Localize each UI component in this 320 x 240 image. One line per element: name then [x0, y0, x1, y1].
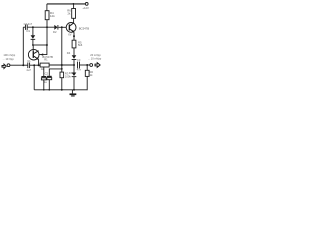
wire R2 top lead — [86, 65, 88, 70]
resistor R2 (output load) — [85, 70, 89, 76]
wire R5 to D4 — [73, 48, 75, 56]
node feedback crossing dot — [61, 64, 63, 66]
svg-text:... 10 Vpp: ... 10 Vpp — [3, 57, 15, 61]
node C2/rail junction — [43, 89, 45, 91]
node Q2 emitter junction — [73, 35, 75, 37]
wire left rail from top wire to input wire — [22, 27, 24, 65]
node R4/top-wire junction — [46, 26, 48, 28]
node input/emitter junction dot — [38, 64, 40, 66]
node B junction dot — [32, 44, 34, 46]
input terminal circle — [7, 64, 10, 67]
wire C5 branch — [49, 69, 62, 76]
wire Q1 emitter to input node — [37, 59, 40, 65]
terminal +12V — [85, 3, 88, 6]
diode D4 — [72, 55, 77, 59]
svg-text:5k6: 5k6 — [78, 43, 83, 47]
transistor Q2 collector diagonal — [70, 23, 74, 26]
diode D2 — [54, 25, 57, 30]
node D1 branch junction — [32, 26, 34, 28]
wire R1 right lead to feedback node — [49, 64, 74, 66]
diode D1 — [31, 35, 36, 39]
node A junction dot — [46, 44, 48, 46]
transistor Q2 base bar — [69, 24, 70, 30]
wire Q2 collector up to R6 — [73, 18, 75, 23]
wire input terminal to left rail — [10, 64, 23, 66]
node C5/rail junction — [48, 89, 50, 91]
svg-text:D4: D4 — [67, 51, 71, 55]
node input/left-rail junction — [22, 64, 24, 66]
wire feedback vertical (from top wire to C5 corner) — [61, 27, 63, 69]
wire R4 bottom lead down through top wire to node A — [46, 20, 48, 45]
svg-text:D3: D3 — [69, 71, 73, 75]
svg-text:R1: R1 — [44, 58, 48, 62]
wire R1 left lead — [39, 64, 41, 66]
capacitor C4 plates — [25, 25, 27, 30]
node Q2-base/feedback junction — [61, 26, 63, 28]
transistor Q1 collector joint blob — [40, 53, 43, 55]
wire left rail to C1 — [23, 64, 27, 66]
transistor Q2 emitter diagonal with arrow — [70, 29, 74, 32]
wire D4 to output wire — [73, 60, 75, 65]
svg-text:D1: D1 — [27, 29, 31, 33]
svg-text:+12V: +12V — [82, 6, 89, 10]
transistor Q2 circle — [66, 23, 76, 33]
node C5 branch dot — [61, 68, 63, 70]
wire D1 branch — [32, 27, 34, 35]
resistor R5 — [72, 40, 76, 48]
wire R6 top lead — [73, 4, 75, 9]
svg-text:C3: C3 — [77, 58, 81, 62]
svg-text:C2: C2 — [45, 71, 49, 75]
wire C3 to output terminal — [80, 64, 90, 66]
svg-text:12k: 12k — [50, 14, 55, 18]
wire Q2 emitter down — [73, 32, 75, 40]
wire R4 top lead — [46, 4, 48, 11]
transistor Q1 base bar — [33, 51, 34, 58]
node ground-drop junction — [33, 64, 35, 66]
ground symbol — [71, 90, 73, 94]
transistor Q1 collector diagonal — [34, 51, 39, 54]
diode D3 — [73, 65, 75, 73]
svg-text:4u7: 4u7 — [26, 68, 31, 72]
wire D3 to bottom rail — [73, 77, 75, 90]
wire top horizontal (base line of Q2) — [23, 26, 25, 28]
resistor R3 (mid bottom) — [60, 72, 64, 78]
svg-text:4n7: 4n7 — [28, 22, 33, 26]
wire bottom rail — [34, 89, 87, 91]
svg-text:1u: 1u — [44, 80, 47, 84]
resistor R6 (collector load) — [72, 9, 76, 19]
wire R3 top lead — [61, 69, 63, 72]
node output wire junction — [73, 64, 75, 66]
wire Q1 collector to node A (down from node A, left into circle) — [39, 45, 47, 55]
svg-text:47n: 47n — [77, 68, 82, 72]
wire C1 to emitter node — [30, 64, 39, 66]
capacitor C3 plates — [77, 62, 79, 69]
svg-text:100 mVpp: 100 mVpp — [3, 53, 15, 57]
node R2 tap junction — [86, 64, 88, 66]
svg-text:... 10 mVpp: ... 10 mVpp — [88, 57, 102, 61]
wire ground drop to bottom rail — [33, 65, 35, 90]
svg-text:20 mVpp: 20 mVpp — [90, 53, 101, 57]
wire Q1 base lead from node B — [32, 45, 34, 52]
wire D1 to node B — [32, 40, 34, 45]
capacitor C1 plates — [27, 63, 29, 69]
node D3/rail junction — [73, 89, 75, 91]
svg-text:BC547B: BC547B — [79, 27, 90, 31]
svg-text:6V: 6V — [68, 32, 71, 36]
capacitor C2 electrolytic — [43, 67, 45, 76]
wire R2 bottom lead to rail corner — [86, 76, 88, 89]
wire top supply rail — [47, 3, 85, 5]
wire R3 bottom lead — [61, 78, 63, 90]
wire node B to node A — [33, 44, 47, 46]
input terminal arrow — [2, 64, 6, 68]
transistor Q1 circle — [28, 49, 39, 60]
capacitor C5 electrolytic — [47, 76, 52, 77]
output terminal circle — [90, 64, 93, 67]
node top rail to R6 junction — [73, 3, 75, 5]
svg-text:C1: C1 — [27, 59, 31, 63]
resistor R1 (horizontal) — [40, 63, 49, 67]
node R3/rail junction — [61, 89, 63, 91]
transistor Q1 emitter diagonal with arrow — [34, 56, 38, 59]
svg-text:D2: D2 — [53, 30, 57, 34]
output terminal arrow — [95, 63, 100, 68]
resistor R4 — [45, 11, 49, 20]
